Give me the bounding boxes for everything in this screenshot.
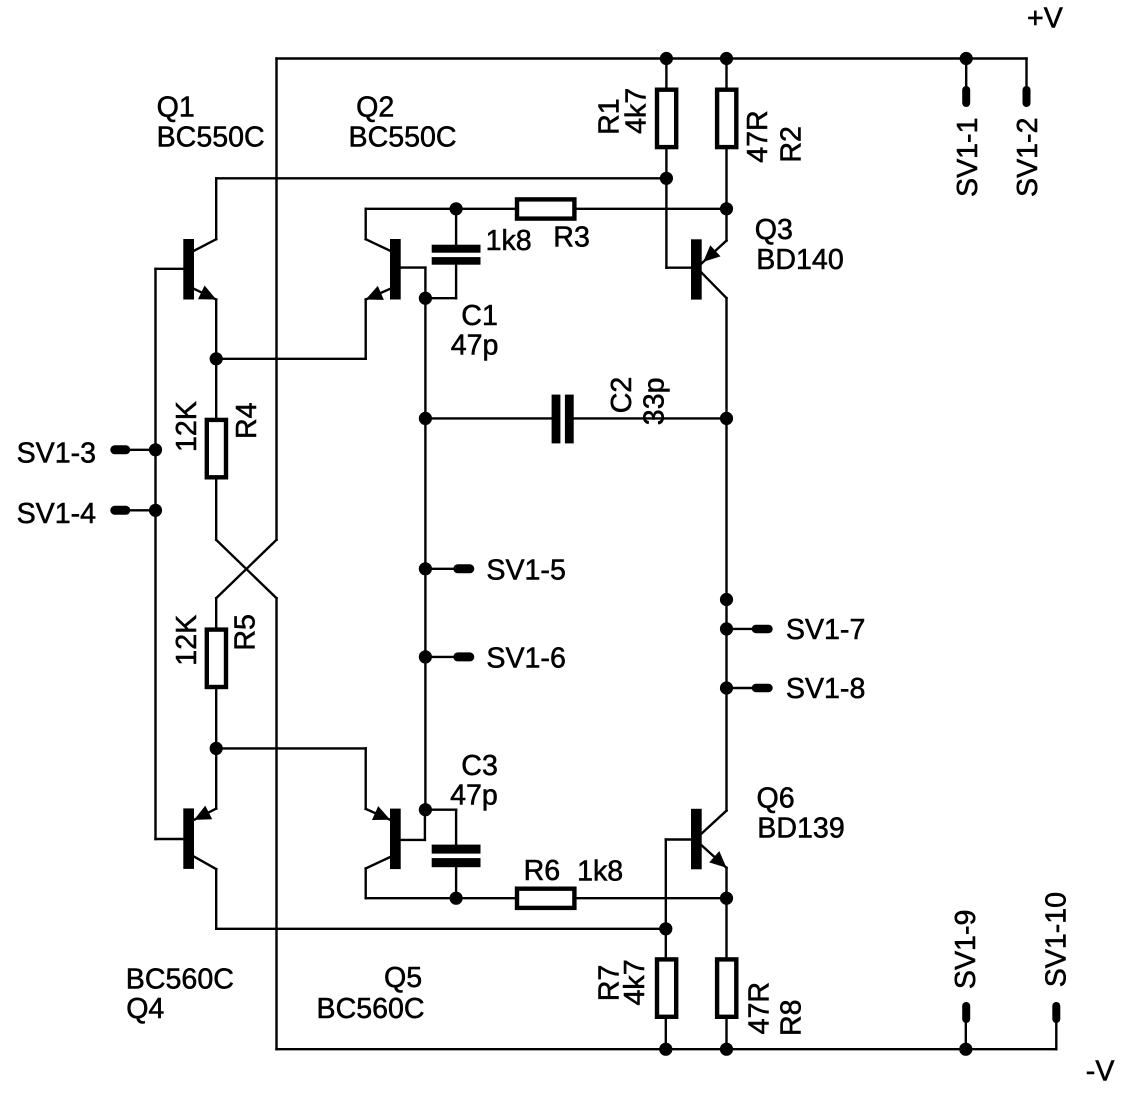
svg-text:Q5: Q5 bbox=[384, 962, 422, 994]
svg-text:BC550C: BC550C bbox=[157, 122, 265, 154]
svg-text:SV1-8: SV1-8 bbox=[786, 673, 865, 705]
svg-text:R8: R8 bbox=[776, 999, 808, 1036]
svg-text:12K: 12K bbox=[171, 615, 203, 666]
svg-text:BC550C: BC550C bbox=[349, 122, 457, 154]
svg-text:BC560C: BC560C bbox=[317, 993, 425, 1025]
svg-text:-V: -V bbox=[1086, 1056, 1115, 1088]
svg-text:47p: 47p bbox=[450, 779, 498, 811]
svg-text:R5: R5 bbox=[229, 614, 261, 651]
svg-text:BD140: BD140 bbox=[756, 244, 843, 276]
svg-text:12K: 12K bbox=[171, 401, 203, 452]
svg-text:SV1-6: SV1-6 bbox=[486, 643, 565, 675]
svg-text:C3: C3 bbox=[461, 750, 498, 782]
svg-text:Q6: Q6 bbox=[757, 783, 795, 815]
svg-text:Q3: Q3 bbox=[755, 214, 793, 246]
svg-text:SV1-7: SV1-7 bbox=[786, 614, 865, 646]
svg-text:BC560C: BC560C bbox=[126, 964, 234, 996]
svg-text:Q2: Q2 bbox=[356, 92, 394, 124]
svg-text:R6: R6 bbox=[524, 855, 561, 887]
svg-text:1k8: 1k8 bbox=[486, 225, 532, 257]
svg-text:SV1-2: SV1-2 bbox=[1012, 118, 1044, 197]
svg-text:R3: R3 bbox=[553, 221, 590, 253]
svg-text:SV1-9: SV1-9 bbox=[950, 910, 982, 989]
svg-text:SV1-3: SV1-3 bbox=[17, 438, 96, 470]
svg-text:47p: 47p bbox=[451, 330, 499, 362]
svg-text:47R: 47R bbox=[744, 982, 776, 1034]
svg-text:+V: +V bbox=[1027, 3, 1063, 35]
svg-text:4k7: 4k7 bbox=[621, 88, 653, 134]
svg-text:SV1-1: SV1-1 bbox=[952, 118, 984, 197]
svg-text:SV1-4: SV1-4 bbox=[17, 498, 97, 530]
svg-text:33p: 33p bbox=[639, 377, 671, 425]
svg-text:R2: R2 bbox=[775, 126, 807, 163]
svg-text:C2: C2 bbox=[606, 377, 638, 414]
svg-text:C1: C1 bbox=[461, 300, 498, 332]
svg-text:47R: 47R bbox=[742, 110, 774, 162]
svg-text:Q4: Q4 bbox=[126, 993, 164, 1025]
svg-text:4k7: 4k7 bbox=[619, 959, 651, 1005]
svg-text:1k8: 1k8 bbox=[577, 856, 623, 888]
svg-text:SV1-5: SV1-5 bbox=[486, 554, 565, 586]
svg-text:Q1: Q1 bbox=[157, 92, 195, 124]
svg-text:SV1-10: SV1-10 bbox=[1041, 892, 1073, 987]
svg-text:R4: R4 bbox=[231, 402, 263, 439]
svg-text:BD139: BD139 bbox=[757, 813, 844, 845]
